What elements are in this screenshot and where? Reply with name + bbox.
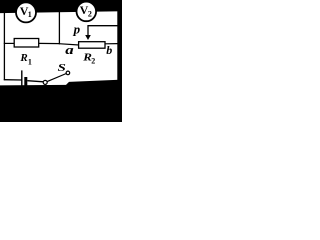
wire: left vertical bus [3,12,5,80]
svg-text:b: b [106,43,112,57]
label R2 [82,50,95,65]
svg-text:p: p [73,22,81,37]
battery BT1 [22,70,28,85]
switch S (pivot, blade, terminal) [43,71,69,84]
wire: middle node to R2 [59,44,79,45]
svg-text:R: R [19,52,27,64]
bottom black band (crop border) [0,80,122,122]
wire: left bus to R1 [4,42,15,44]
wire: R2 to right bus [105,43,118,45]
white paper background [0,0,122,122]
potentiometer R2 body (track a-b) [79,42,105,49]
svg-text:2: 2 [91,56,95,65]
top black band (top bus / crop border) [0,0,122,13]
voltmeter U1 (V1) [16,2,36,22]
svg-text:1: 1 [28,10,32,19]
wire: R1 to middle node [39,42,60,44]
wire: bottom from left bus to battery [4,79,22,81]
wire: wiper feed from right bus [88,25,118,27]
wiper arrow P (slider) [85,25,91,40]
resistor R1 body [14,39,39,48]
right black band (right bus / crop border) [117,0,122,122]
wire: battery to switch [27,81,43,82]
svg-text:1: 1 [28,57,32,66]
svg-text:a: a [65,44,74,58]
svg-text:S: S [58,62,66,74]
voltmeter U2 (V2) [77,2,97,22]
label R1 [19,52,32,66]
wire: middle vertical (top band to R1/R2 node) [58,12,60,45]
svg-text:2: 2 [88,10,92,19]
